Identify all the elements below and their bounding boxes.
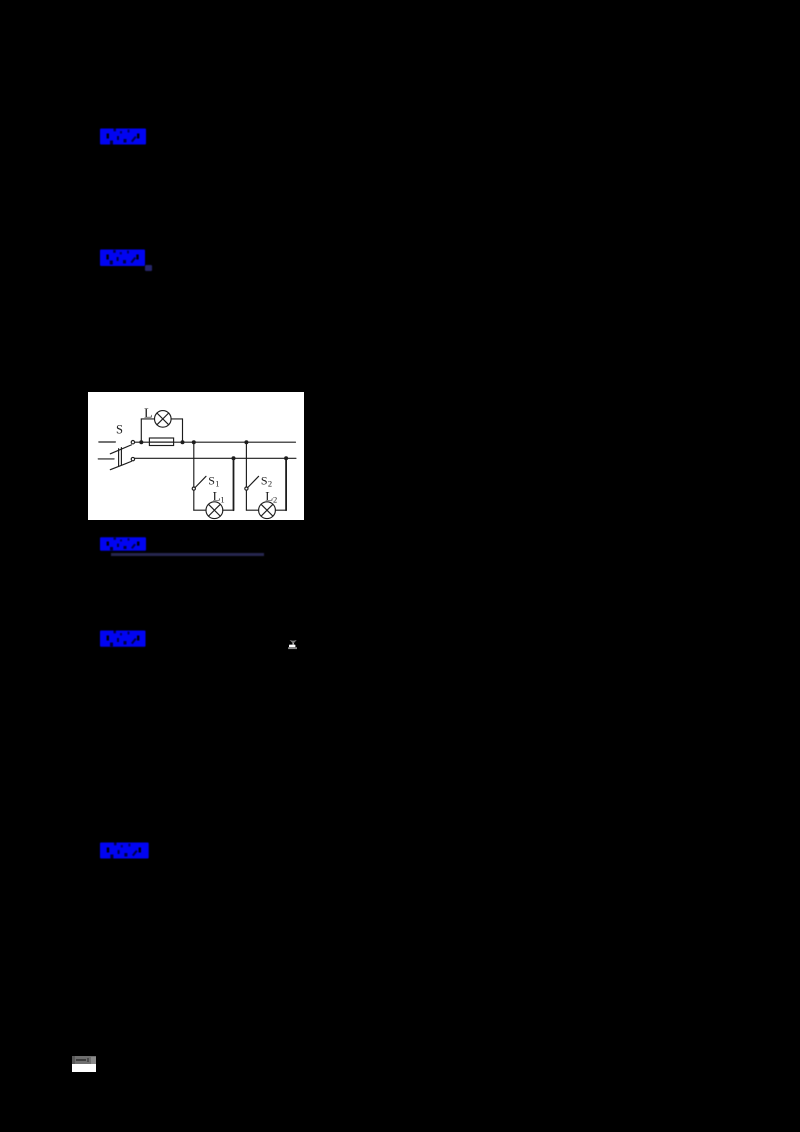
svg-text:S: S	[208, 473, 215, 487]
svg-text:1: 1	[220, 494, 224, 504]
svg-text:1: 1	[215, 478, 219, 488]
svg-text:L: L	[144, 406, 153, 421]
svg-text:S: S	[261, 473, 268, 487]
svg-text:2: 2	[268, 478, 272, 488]
svg-text:S: S	[116, 422, 123, 436]
svg-text:L: L	[213, 489, 221, 504]
svg-text:L: L	[265, 489, 273, 504]
svg-text:2: 2	[273, 494, 277, 504]
